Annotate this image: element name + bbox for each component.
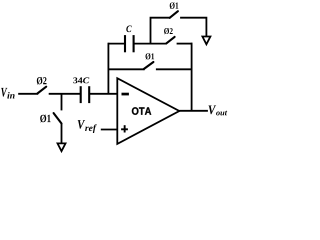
label phi1 of S5: [170, 2, 179, 9]
node Vin label: [1, 88, 14, 99]
wire top branch: vertical riser and left segment: [151, 18, 171, 44]
op-amp U1 OTA triangle: [117, 78, 179, 144]
label 34C: [73, 77, 89, 83]
discharge arrow (open arrowhead): [58, 143, 66, 151]
node Vout label: [209, 106, 228, 116]
wire switch S4 to right bus: [156, 68, 193, 70]
switch S3 phi2 (feedback): [166, 37, 174, 44]
wire switch S2 to arrow: [61, 124, 63, 144]
minus sign inverting input: [122, 93, 129, 96]
label phi1 of S4: [146, 53, 155, 59]
wire C branch left segment: [108, 43, 125, 45]
discharge arrow top right (open arrowhead): [202, 37, 210, 45]
wire capacitor 34C to OTA inverting input: [89, 93, 117, 95]
plus sign non-inverting input: [121, 125, 128, 132]
wire right feedback bus: [191, 43, 193, 111]
node A branch wire down: [61, 94, 63, 111]
wire capacitor C to switch S3: [134, 43, 167, 45]
switch S4 phi1 (mid branch): [144, 62, 154, 69]
wire phi1 mid branch left segment: [108, 68, 144, 70]
wire Vin to switch S1: [18, 93, 38, 95]
node Vref label: [78, 120, 97, 133]
wire top branch right segment and drop: [180, 18, 206, 37]
wire OTA output: [179, 110, 208, 112]
label OTA: [132, 107, 151, 115]
switch S2 phi1 (reset branch): [54, 113, 62, 123]
capacitor 34C plates: [81, 86, 90, 103]
label C: [126, 26, 131, 33]
switch S1 phi2 (input sampling): [37, 87, 46, 94]
label phi2 of S1: [37, 77, 47, 85]
wire left feedback bus: [107, 43, 109, 94]
wire switch S3 to right bus: [177, 43, 193, 45]
switch S5 phi1 (top branch): [170, 11, 178, 18]
wire switch S1 to node A: [49, 93, 81, 95]
wire Vref to OTA non-inverting input: [101, 129, 118, 131]
label phi1 of S2: [40, 115, 50, 123]
label phi2 of S3: [164, 28, 173, 34]
capacitor C plates: [125, 35, 134, 52]
